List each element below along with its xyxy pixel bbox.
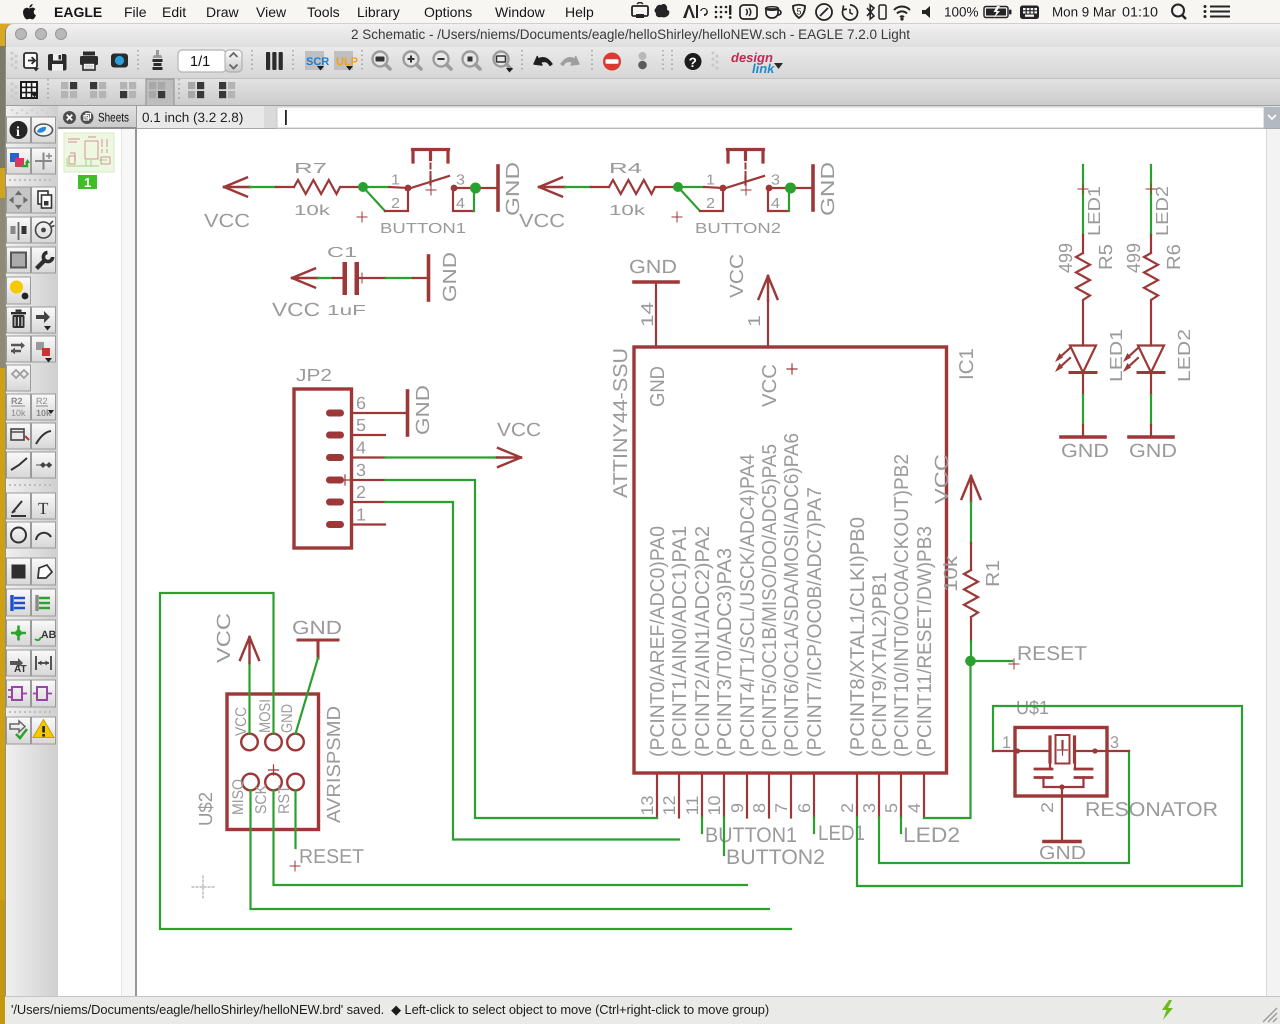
spotlight <box>1172 5 1184 17</box>
svg-text:100%: 100% <box>944 5 979 20</box>
wire VCC to R1 <box>970 502 972 543</box>
svg-text:R1: R1 <box>983 560 1004 587</box>
svg-text:10k: 10k <box>609 203 646 219</box>
load capacitors inside U$1 <box>1035 769 1092 778</box>
svg-text:R2: R2 <box>36 396 48 406</box>
svg-text:RESONATOR: RESONATOR <box>1085 799 1218 821</box>
resistor R5 <box>1076 235 1090 346</box>
options dots <box>639 52 647 60</box>
capacitor C1 <box>333 277 386 279</box>
junction node R7/BUTTON1 <box>358 182 368 192</box>
svg-text:BUTTON2: BUTTON2 <box>726 846 825 869</box>
svg-text:1: 1 <box>706 173 715 189</box>
resistor R6 <box>1144 235 1158 346</box>
svg-text:4: 4 <box>905 803 924 813</box>
zoom in icon <box>404 52 422 70</box>
left tool palette panel <box>5 106 58 996</box>
desktop wallpaper strip at left <box>0 24 5 1024</box>
wire RST stub (U$2) <box>294 790 296 848</box>
time machine clock <box>843 5 858 20</box>
svg-text:GND: GND <box>292 618 342 639</box>
JP2 pin leads <box>352 413 407 525</box>
origin cross U$2 <box>269 765 279 775</box>
svg-text:BUTTON1: BUTTON1 <box>705 824 797 847</box>
add part <box>36 311 50 323</box>
circle <box>11 528 26 543</box>
ground GND (C1) <box>427 256 431 300</box>
invoke gate <box>12 687 22 700</box>
right scrollbar <box>1266 129 1280 996</box>
layer preset icons <box>61 82 77 98</box>
alert icon <box>816 4 832 20</box>
svg-text:R5: R5 <box>1096 244 1117 270</box>
canvas reference cross mark <box>192 876 214 898</box>
wire RESET label stub <box>971 660 1013 662</box>
canvas <box>137 129 1266 996</box>
connector U$2 AVRISPSMD body <box>227 694 319 830</box>
delete <box>11 310 26 329</box>
ground GND (IC pin14) <box>634 280 678 284</box>
row 3 widgets <box>58 106 1280 129</box>
svg-text:13: 13 <box>638 796 657 816</box>
svg-text:(PCINT3/T0/ADC3)PA3: (PCINT3/T0/ADC3)PA3 <box>714 548 736 757</box>
svg-text:0.1 inch (3.2 2.8): 0.1 inch (3.2 2.8) <box>142 110 243 125</box>
wire R1 to RESET junction <box>970 641 972 661</box>
junction <box>11 626 26 641</box>
pin 14 GND (IC1) <box>655 283 657 347</box>
svg-text:10k: 10k <box>294 203 331 219</box>
svg-text:4: 4 <box>456 196 465 212</box>
svg-text:(PCINT10/INT0/OC0A/CKOUT)PB2: (PCINT10/INT0/OC0A/CKOUT)PB2 <box>891 454 913 757</box>
svg-text:2: 2 <box>356 482 366 502</box>
DVD player icon <box>740 5 757 19</box>
svg-text:11: 11 <box>683 796 702 816</box>
zoom select icon <box>463 52 481 70</box>
power flag VCC (net to R4) <box>539 178 565 197</box>
origin cross U$1 <box>1058 745 1068 755</box>
junction node R4/BUTTON2 <box>673 182 683 192</box>
svg-text:5: 5 <box>356 415 366 435</box>
wire GND pad to GND flag (diagonal) <box>296 658 319 734</box>
dotted keyboard icon <box>715 5 732 19</box>
svg-text:RESET: RESET <box>299 846 364 868</box>
svg-text:2: 2 <box>838 803 857 813</box>
svg-text:SCK: SCK <box>253 784 270 814</box>
wire VCC to R4 <box>565 186 591 188</box>
svg-text:RST: RST <box>276 785 293 814</box>
wire net LED2 (top) <box>1150 165 1152 235</box>
origin cross BUTTON1 <box>426 185 436 195</box>
wire BUTTON2 pin4 to GND <box>788 190 790 211</box>
switch BUTTON2 <box>700 150 812 212</box>
wire net LED1 stub (IC pin 6) <box>813 818 815 834</box>
ground GND (LED1) <box>1061 435 1105 439</box>
svg-text:MISO: MISO <box>230 779 247 815</box>
origin cross IC1 <box>787 364 797 374</box>
svg-text:GND: GND <box>279 704 296 733</box>
svg-text:GND: GND <box>647 366 669 407</box>
move <box>9 191 28 210</box>
svg-text:LED1: LED1 <box>1106 329 1126 382</box>
erc <box>10 721 25 732</box>
svg-text:GND: GND <box>440 252 461 302</box>
rect <box>12 565 26 579</box>
svg-text:5: 5 <box>797 7 802 17</box>
errors <box>33 720 54 738</box>
pinswap <box>11 345 21 351</box>
mark <box>35 153 52 170</box>
resonator U$1 body <box>1015 728 1107 797</box>
bus <box>10 595 13 611</box>
wire junction to BUTTON1 pin2 <box>363 187 385 211</box>
svg-text:R7: R7 <box>294 161 327 177</box>
svg-text:(PCINT6/OC1A/SDA/MOSI/ADC6)PA6: (PCINT6/OC1A/SDA/MOSI/ADC6)PA6 <box>781 433 803 757</box>
zoom redraw icon <box>494 52 514 73</box>
svg-text:AB: AB <box>41 629 57 641</box>
svg-text:VCC: VCC <box>932 454 953 504</box>
label <box>35 637 41 640</box>
svg-text:i: i <box>16 125 20 140</box>
svg-text:VCC: VCC <box>272 300 320 321</box>
svg-text:14: 14 <box>638 302 657 327</box>
wire MISO: U$2 to IC pin8 <box>251 790 770 909</box>
ground GND (U$2) <box>298 640 338 658</box>
ground GND (LED2) <box>1129 435 1173 439</box>
ground GND (JP2 pin6) <box>406 391 410 435</box>
power flag VCC (JP2 pin4) <box>497 448 521 467</box>
copy <box>38 191 48 204</box>
wire net LED2 stub (IC pin 5) <box>900 818 902 834</box>
svg-text:3: 3 <box>356 460 366 480</box>
open/export icon <box>24 53 39 71</box>
help icon <box>685 53 702 70</box>
svg-text:12: 12 <box>660 796 679 816</box>
replace <box>36 342 44 350</box>
status bar <box>5 996 1280 1024</box>
svg-text:10k: 10k <box>941 555 962 592</box>
svg-text:7: 7 <box>772 803 791 813</box>
connector JP2 body <box>294 389 352 548</box>
svg-text:VCC: VCC <box>727 254 748 298</box>
svg-text:1uF: 1uF <box>327 303 366 319</box>
wire net LED1 (top) <box>1082 165 1084 235</box>
info <box>10 121 28 139</box>
IC1 bottom pin stubs (pins 13,12,11,10,9,8,7,6,2,3,5,4) <box>657 773 924 818</box>
show <box>35 124 53 136</box>
IC U1: ATTINY44-SSU body <box>634 347 947 773</box>
change (wrench) <box>37 260 46 269</box>
svg-text:2: 2 <box>1038 802 1057 813</box>
pin 1 VCC (IC1) <box>767 300 769 347</box>
arc <box>36 533 51 540</box>
split <box>11 458 27 470</box>
svg-text:10: 10 <box>705 796 724 816</box>
smash <box>11 429 24 440</box>
ground GND (BUTTON1) <box>496 166 500 210</box>
zoom out icon <box>434 52 452 70</box>
gate2 <box>37 687 47 700</box>
junction RESET <box>965 656 976 667</box>
svg-text:1/1: 1/1 <box>190 54 210 70</box>
svg-text:(PCINT1/AIN0/ADC1)PA1: (PCINT1/AIN0/ADC1)PA1 <box>669 526 691 757</box>
wire VCC (JP2 pin4) <box>385 456 497 458</box>
svg-text:9: 9 <box>728 803 747 813</box>
power flag VCC (IC pin1) <box>759 276 778 301</box>
app icon <box>655 4 670 17</box>
pin junction dots U$1 <box>1015 748 1020 753</box>
svg-text:6: 6 <box>795 803 814 813</box>
svg-text:VCC: VCC <box>214 613 235 663</box>
polygon <box>38 565 52 578</box>
sheet 1 thumbnail <box>64 133 114 172</box>
mirror <box>18 222 20 240</box>
svg-text:1: 1 <box>84 175 91 190</box>
svg-text:GND: GND <box>629 257 677 278</box>
wire XTAL2: IC pin3 to U$1 pin3 <box>879 751 1129 863</box>
save icon <box>48 54 67 71</box>
notification center <box>1210 7 1230 17</box>
rotate <box>36 222 52 238</box>
svg-text:AT: AT <box>14 664 27 675</box>
plot/stack icon <box>153 50 163 70</box>
wire net BUTTON1 stub (IC pin 11) <box>701 818 703 834</box>
wire VCC to R7 <box>250 186 276 188</box>
display layers <box>10 153 19 162</box>
svg-text:5: 5 <box>882 803 901 813</box>
switch BUTTON1 <box>385 150 497 212</box>
svg-text:GND: GND <box>413 385 434 435</box>
svg-text:(PCINT4/T1/SCL/USCK/ADC4)PA4: (PCINT4/T1/SCL/USCK/ADC4)PA4 <box>737 454 759 757</box>
wire JP2 pin2 to IC pin12 <box>385 502 679 840</box>
resistor R1 <box>964 543 978 641</box>
ground GND (U$1 pin2) <box>1044 840 1080 844</box>
wire <box>12 501 22 513</box>
wire junction to BUTTON1 pin1 <box>363 186 389 188</box>
svg-text:1: 1 <box>1002 733 1011 752</box>
sheet selector 1/1 <box>178 50 242 72</box>
SCR script icon <box>305 51 329 71</box>
svg-text:LED2: LED2 <box>1152 186 1172 236</box>
paint <box>10 281 23 294</box>
speaker <box>922 6 930 18</box>
svg-text:VCC: VCC <box>519 211 565 232</box>
svg-text:(PCINT8/XTAL1/CLKI)PB0: (PCINT8/XTAL1/CLKI)PB0 <box>847 517 869 757</box>
svg-text:T: T <box>38 499 49 518</box>
svg-text:GND: GND <box>1129 441 1177 462</box>
window title bar <box>5 24 1280 47</box>
power flag VCC (net to R7) <box>224 178 250 197</box>
macOS menu bar <box>0 0 1280 24</box>
resistor R4 <box>591 180 678 194</box>
wire BUTTON1 pin4 to GND <box>473 190 475 211</box>
wire junction to BUTTON2 pin1 <box>678 186 704 188</box>
svg-text:10k: 10k <box>36 408 52 418</box>
wire VCC (U$2) <box>248 663 250 734</box>
optimize <box>36 464 52 466</box>
row 3: sheets tab + coords + command line <box>58 106 1280 129</box>
stop icon <box>603 53 621 71</box>
toolbar row 2 <box>5 79 1280 106</box>
caffeine cup <box>766 9 781 18</box>
svg-text:C1: C1 <box>327 245 357 261</box>
svg-text:(PCINT11/RESET/DW)PB3: (PCINT11/RESET/DW)PB3 <box>914 526 936 757</box>
svg-text:(PCINT0/AREF/ADC0)PA0: (PCINT0/AREF/ADC0)PA0 <box>647 526 669 757</box>
svg-text:3: 3 <box>1110 733 1119 752</box>
LED LED2 <box>1126 346 1164 373</box>
svg-text:3: 3 <box>771 173 780 189</box>
svg-text:?: ? <box>689 55 697 70</box>
svg-text:1: 1 <box>745 315 764 327</box>
sheet number badge <box>78 175 97 189</box>
wifi <box>894 7 910 17</box>
power flag VCC (net to C1) <box>292 269 318 288</box>
phone battery <box>879 5 886 19</box>
svg-text:link: link <box>752 61 775 76</box>
redo icon (disabled) <box>561 57 579 66</box>
image/camera icon <box>111 54 128 68</box>
wire LED2 to GND <box>1150 373 1152 396</box>
origin cross C1 <box>357 273 367 283</box>
sheets panel <box>58 129 121 996</box>
svg-text:RESET: RESET <box>1017 643 1087 665</box>
svg-text:2: 2 <box>391 196 400 212</box>
svg-text:(PCINT2/AIN1/ADC2)PA2: (PCINT2/AIN1/ADC2)PA2 <box>692 526 714 757</box>
origin cross BUTTON2 <box>741 185 751 195</box>
svg-text:VCC: VCC <box>233 707 250 736</box>
svg-text:2: 2 <box>706 196 715 212</box>
svg-text:4: 4 <box>771 196 780 212</box>
junction BUTTON2 pin3/GND <box>785 183 796 194</box>
svg-text:R4: R4 <box>609 161 642 177</box>
wire XTAL1: IC pin2 to U$1 pin1 <box>857 706 1242 886</box>
zoom fit icon <box>373 52 391 70</box>
svg-text:R2: R2 <box>11 396 23 406</box>
attribute <box>10 658 23 668</box>
svg-text:VCC: VCC <box>497 420 541 441</box>
toolbar row 1 <box>5 47 1280 79</box>
group <box>11 253 26 268</box>
svg-text:VCC: VCC <box>204 211 250 232</box>
resize grip <box>1263 1008 1277 1022</box>
JP2 pin contacts <box>326 410 344 529</box>
svg-text:1: 1 <box>391 173 400 189</box>
svg-text:Sheets: Sheets <box>98 111 129 125</box>
display mirroring icon <box>632 6 648 16</box>
crystal element inside U$1 <box>1015 735 1107 764</box>
svg-text:LED2: LED2 <box>1174 329 1194 382</box>
svg-text:R6: R6 <box>1164 244 1185 270</box>
svg-text:AVRISPSMD: AVRISPSMD <box>324 706 345 823</box>
resistor R7 <box>276 180 363 194</box>
ULP icon <box>334 51 358 71</box>
svg-text:LED2: LED2 <box>903 824 960 847</box>
battery <box>984 7 1008 18</box>
power flag VCC (R1) <box>962 476 981 502</box>
origin cross JP2 pin3 <box>340 475 350 485</box>
miter <box>36 431 51 444</box>
wire junction to BUTTON2 pin2 <box>678 187 700 211</box>
svg-text:3: 3 <box>860 803 879 813</box>
svg-text:U$1: U$1 <box>1016 698 1049 719</box>
svg-text:MOSI: MOSI <box>257 699 274 733</box>
power flag VCC (U$2) <box>240 637 259 663</box>
svg-text:(PCINT7/ICP/OC0B/ADC7)PA7: (PCINT7/ICP/OC0B/ADC7)PA7 <box>804 487 826 757</box>
wire LED1 to GND <box>1082 373 1084 396</box>
grid icon <box>21 82 38 98</box>
shield 5 <box>793 5 805 18</box>
svg-text:IC1: IC1 <box>956 348 978 380</box>
svg-text:GND: GND <box>1039 843 1086 864</box>
wire VCC to C1 <box>318 277 333 279</box>
junction BUTTON1 pin3/GND <box>470 183 481 194</box>
svg-text:(PCINT5/OC1B/MISO/DO/ADC5)PA5: (PCINT5/OC1B/MISO/DO/ADC5)PA5 <box>759 444 781 757</box>
wire C1 to GND <box>386 277 413 279</box>
net <box>35 595 38 611</box>
svg-text:LED1: LED1 <box>1084 186 1104 236</box>
svg-text:3: 3 <box>456 173 465 189</box>
svg-text:8: 8 <box>750 803 769 813</box>
keypad icon <box>1020 6 1039 20</box>
svg-text:01:10: 01:10 <box>1122 5 1158 20</box>
svg-text:VCC: VCC <box>759 364 781 407</box>
undo icon <box>534 57 552 66</box>
ground GND (BUTTON2) <box>811 166 815 210</box>
wire RESET to IC pin4 <box>924 661 971 818</box>
svg-text:GND: GND <box>818 162 839 216</box>
svg-text:10k: 10k <box>11 408 26 418</box>
dimension <box>36 656 51 670</box>
layer list icon <box>266 52 283 70</box>
status lightning bolt <box>1162 1000 1173 1020</box>
wire JP2 pin3 to IC pin13 <box>385 480 657 818</box>
svg-text:ATTINY44-SSU: ATTINY44-SSU <box>610 348 632 498</box>
svg-text:(PCINT9/XTAL2)PB1: (PCINT9/XTAL2)PB1 <box>869 572 891 757</box>
svg-text:BUTTON1: BUTTON1 <box>380 221 466 237</box>
wire net BUTTON2 stub (IC pin 10) <box>723 818 725 856</box>
U$2 pin pads (circles) <box>241 734 304 791</box>
svg-text:Mon 9 Mar: Mon 9 Mar <box>1052 5 1116 20</box>
svg-text:499: 499 <box>1056 243 1077 273</box>
svg-text:4: 4 <box>356 438 366 458</box>
wire MOSI: U$2 to IC pin7 <box>160 593 791 929</box>
gateswap (disabled) <box>12 370 28 378</box>
svg-text:BUTTON2: BUTTON2 <box>695 221 781 237</box>
bluetooth <box>867 5 874 19</box>
svg-text:GND: GND <box>503 162 524 216</box>
svg-text:6: 6 <box>356 393 366 413</box>
wire SCK: U$2 to IC pin9 <box>274 790 748 885</box>
svg-text:JP2: JP2 <box>296 365 332 385</box>
print icon <box>80 52 98 71</box>
LED LED1 <box>1058 346 1096 373</box>
A| icon <box>683 5 695 18</box>
svg-text:1: 1 <box>356 505 366 525</box>
svg-text:499: 499 <box>1124 243 1145 273</box>
svg-text:GND: GND <box>1061 441 1109 462</box>
svg-text:U$2: U$2 <box>196 792 217 826</box>
